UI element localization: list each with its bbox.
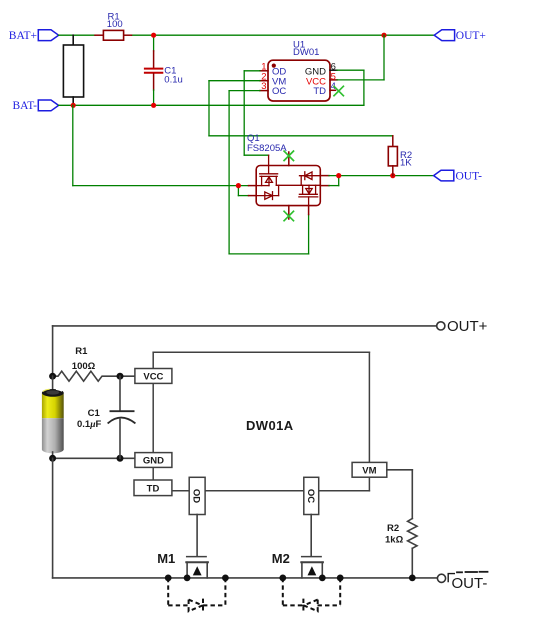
svg-text:OUT-: OUT- (456, 170, 483, 182)
wire OD net (244, 71, 268, 155)
wire OD gate (196, 515, 198, 556)
svg-text:R2: R2 (387, 523, 399, 534)
wire GND net (337, 70, 364, 105)
resistor R1 (95, 11, 132, 40)
pin box VM (352, 462, 387, 477)
U1 pin 5 VCC (306, 71, 337, 87)
wire OC gate (310, 515, 312, 556)
wire VM to R2 (387, 470, 413, 519)
junction battery top (49, 373, 56, 380)
op-amp U1 DW01 body (268, 40, 330, 102)
pin box VCC (135, 369, 172, 384)
U1 pin 1 OD (260, 61, 287, 77)
svg-text:1kΩ: 1kΩ (385, 534, 404, 545)
svg-text:TD: TD (147, 484, 160, 495)
svg-text:100: 100 (107, 19, 123, 30)
port BAT- (13, 100, 59, 112)
svg-text:OUT+: OUT+ (456, 30, 486, 42)
body diode M2 (dashed) (283, 578, 340, 613)
junction C1 top (bottom schematic) (117, 373, 124, 380)
wire BAT- rail (59, 104, 364, 106)
junction Q1 drain (336, 173, 341, 178)
svg-text:BAT+: BAT+ (9, 30, 37, 42)
resistor R1 (bottom) (53, 346, 135, 381)
capacitor C1 (145, 35, 183, 105)
svg-text:3: 3 (261, 81, 266, 92)
resistor R2 (388, 136, 412, 176)
svg-text:M1: M1 (157, 551, 175, 566)
wire BAT- to Q1 source (73, 105, 249, 195)
junction dashed box M2 right (337, 575, 344, 582)
Q1 pin stubs (249, 152, 330, 219)
U1 pin 2 VM (260, 71, 287, 87)
pin box OD (189, 477, 205, 514)
junction battery bottom (71, 103, 76, 108)
port OUT- (434, 170, 482, 182)
TOP_SCHEMATIC (42, 318, 488, 612)
transistor Q1 FS8205A body (247, 133, 320, 206)
IC DW01A outline (153, 352, 369, 491)
no-connect X on Q1 top pin (284, 151, 293, 160)
junction dashed box M1 right (222, 575, 229, 582)
Q1 internals (256, 155, 320, 205)
junction R2 bottom rail (409, 575, 416, 582)
svg-text:BAT-: BAT- (13, 100, 38, 112)
svg-text:1K: 1K (400, 158, 412, 169)
battery cell (top schematic) (63, 35, 83, 105)
wire BAT+ rail top (59, 34, 434, 36)
no-connect X on pin 4 (334, 86, 343, 95)
junction dashed box M2 left (279, 575, 286, 582)
wire VM net (209, 81, 393, 136)
transistor M1 (157, 551, 208, 578)
junction R2 bottom (390, 173, 395, 178)
pin box OC (304, 477, 319, 514)
wire Q1 drain to OUT- rail (329, 176, 434, 186)
terminal OUT+ (437, 318, 488, 335)
svg-text:R1: R1 (75, 346, 88, 357)
resistor R2 (bottom) (385, 519, 417, 578)
wire VCC net (337, 35, 384, 80)
battery cell (bottom schematic) (42, 376, 64, 458)
svg-text:VCC: VCC (143, 372, 163, 383)
svg-text:GND: GND (143, 456, 164, 467)
svg-text:VM: VM (362, 466, 376, 477)
svg-text:0.1u: 0.1u (164, 75, 183, 86)
U1 pin 4 TD (313, 81, 336, 97)
svg-text:OC: OC (272, 86, 286, 97)
wire battery to bottom rail (52, 458, 54, 578)
port OUT+ (434, 30, 486, 42)
port BAT+ (9, 30, 59, 42)
terminal OUT- (437, 572, 487, 592)
pin box GND (135, 453, 172, 468)
U1 pin 6 GND (305, 61, 337, 77)
pin box TD (134, 480, 172, 496)
capacitor C1 (bottom) (77, 376, 135, 458)
svg-text:M2: M2 (272, 551, 290, 566)
wire OUT- bottom rail (53, 577, 438, 579)
junction M2 drain (319, 575, 326, 582)
junction battery bottom (bottom schematic) (49, 455, 56, 462)
junction Q1 source left (236, 183, 241, 188)
svg-text:FS8205A: FS8205A (247, 143, 287, 154)
svg-text:C1: C1 (88, 408, 101, 419)
wire OUT+ top rail (53, 326, 437, 376)
svg-text:OUT+: OUT+ (447, 318, 488, 335)
svg-text:DW01A: DW01A (246, 418, 294, 433)
junction dashed box M1 left (165, 575, 172, 582)
wire OC net (229, 91, 309, 254)
junction C1 top (151, 33, 156, 38)
junction VCC drop at top rail (381, 33, 386, 38)
transistor M2 (272, 551, 323, 578)
junction C1 bottom (bottom schematic) (117, 455, 124, 462)
no-connect X on Q1 bottom pin (284, 211, 293, 220)
junction M1 source (184, 575, 191, 582)
wire GND row (53, 457, 135, 459)
U1 pin 3 OC (260, 81, 287, 97)
svg-text:DW01: DW01 (293, 47, 319, 58)
svg-text:100Ω: 100Ω (72, 361, 96, 372)
svg-text:OC: OC (305, 489, 316, 503)
svg-text:OUT-: OUT- (452, 575, 488, 592)
svg-text:OD: OD (191, 489, 202, 503)
svg-text:TD: TD (313, 86, 326, 97)
svg-text:0.1μF: 0.1μF (77, 419, 102, 430)
body diode M1 (dashed) (168, 578, 225, 613)
junction C1 bottom (151, 103, 156, 108)
